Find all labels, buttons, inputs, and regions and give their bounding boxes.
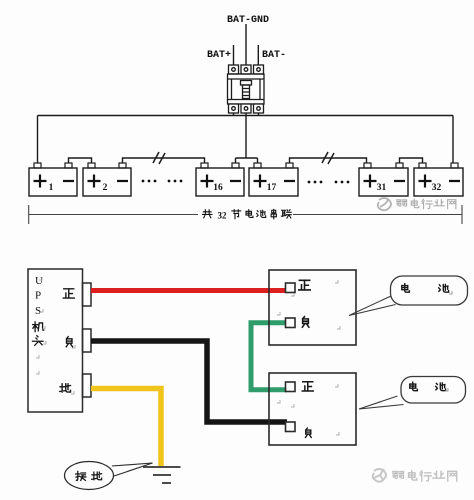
svg-text:17: 17 [267,183,277,193]
svg-text:32: 32 [218,211,228,221]
svg-text:S: S [35,305,41,317]
svg-text:BAT+: BAT+ [207,50,231,61]
svg-text:U: U [35,275,43,287]
svg-text:1: 1 [49,183,54,193]
svg-text:32: 32 [432,183,442,193]
svg-text:16: 16 [213,183,223,193]
svg-text:2: 2 [103,183,108,193]
svg-text:31: 31 [377,183,387,193]
svg-text:BAT-: BAT- [262,50,286,61]
svg-text:P: P [35,290,41,302]
svg-text:BAT-GND: BAT-GND [227,15,269,26]
